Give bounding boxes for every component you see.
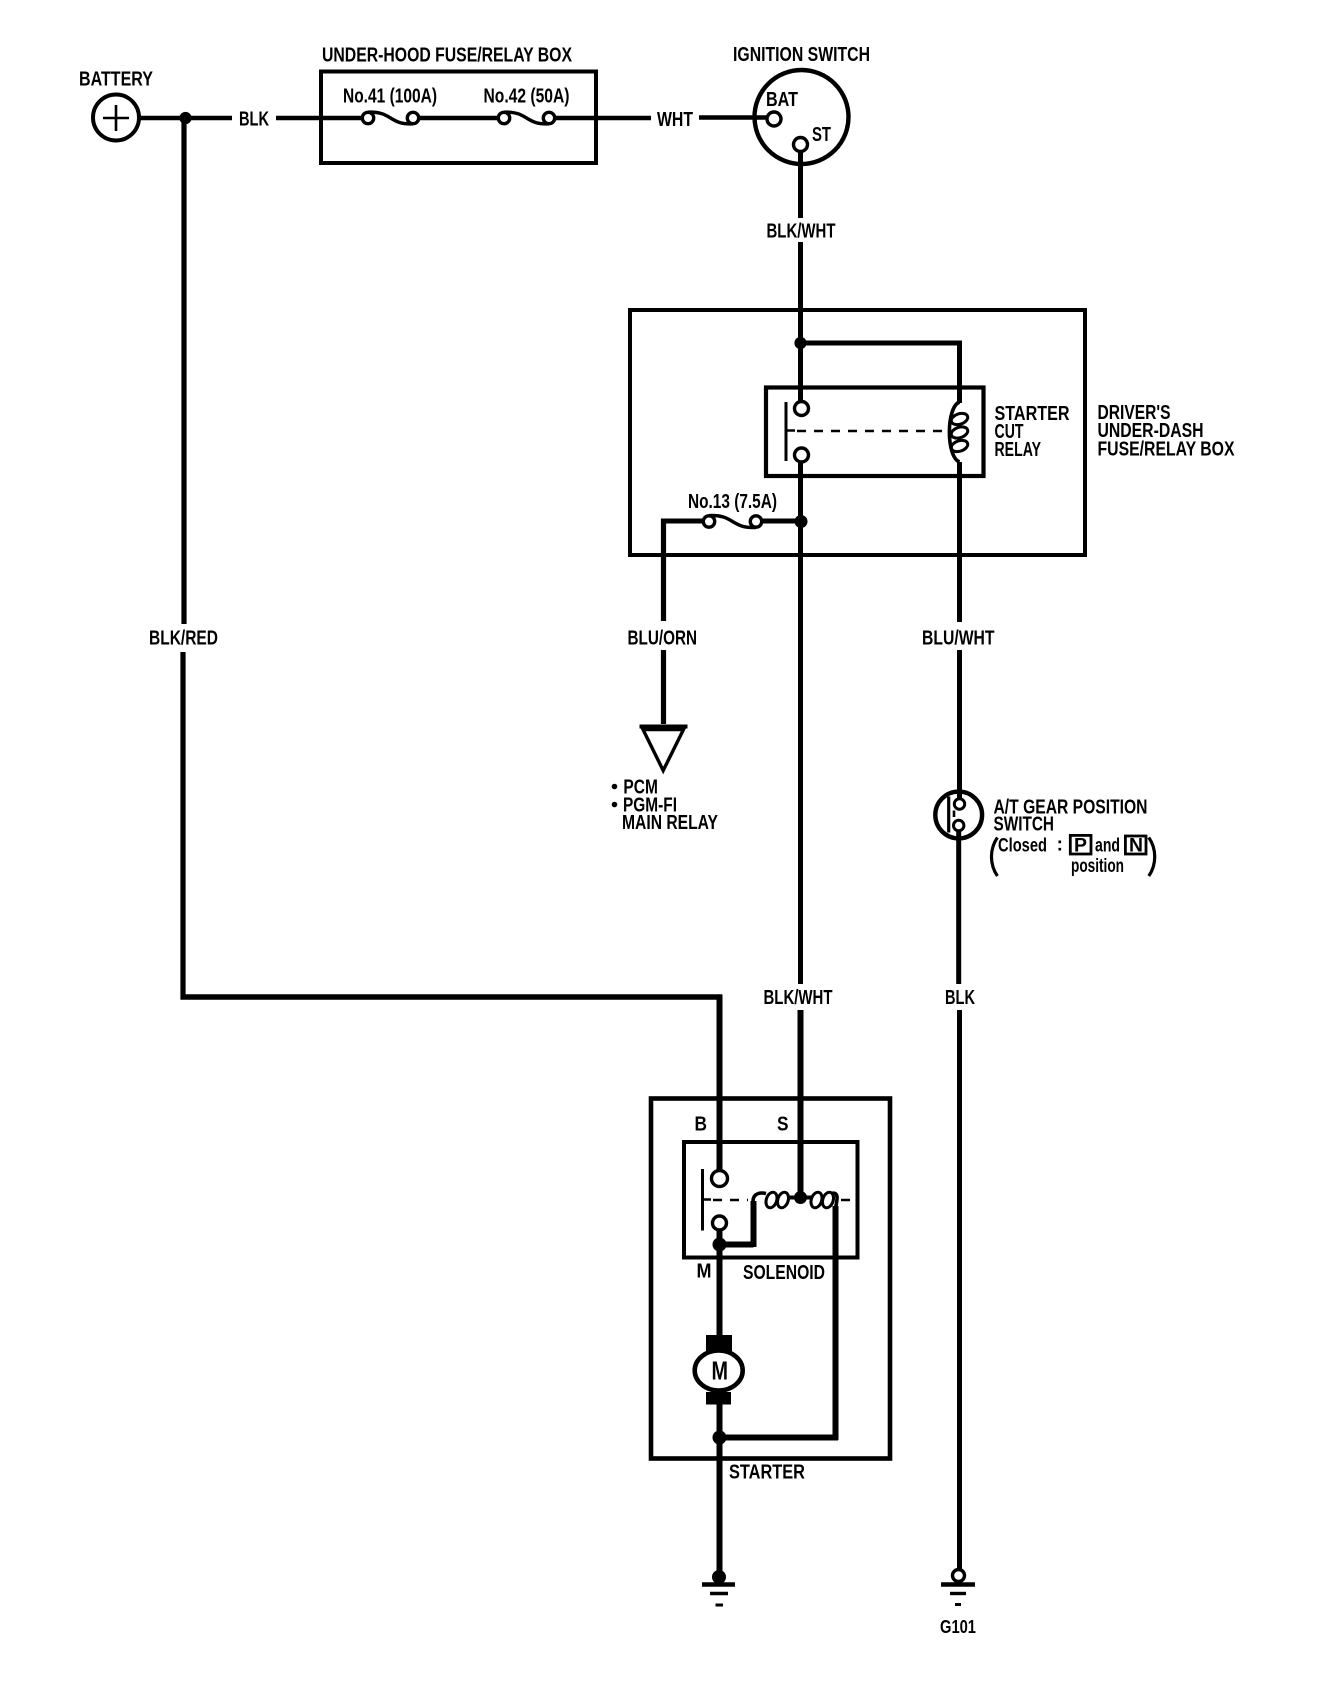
svg-text:IGNITION SWITCH: IGNITION SWITCH bbox=[733, 44, 870, 66]
svg-text:No.41 (100A): No.41 (100A) bbox=[343, 85, 437, 107]
svg-text:M: M bbox=[712, 1356, 729, 1386]
svg-text:S: S bbox=[777, 1114, 789, 1136]
svg-text:SWITCH: SWITCH bbox=[994, 814, 1055, 836]
svg-text:FUSE/RELAY BOX: FUSE/RELAY BOX bbox=[1098, 439, 1236, 461]
svg-text:BATTERY: BATTERY bbox=[79, 69, 154, 91]
svg-text:M: M bbox=[697, 1261, 712, 1283]
svg-text::: : bbox=[1057, 835, 1063, 856]
svg-text:and: and bbox=[1095, 835, 1120, 856]
svg-text:BLK: BLK bbox=[945, 987, 975, 1009]
svg-text:BLK/RED: BLK/RED bbox=[149, 627, 218, 649]
svg-text:BLU/ORN: BLU/ORN bbox=[628, 627, 698, 649]
svg-text:ST: ST bbox=[812, 124, 831, 146]
svg-text:BLK: BLK bbox=[239, 109, 269, 131]
svg-text:G101: G101 bbox=[940, 1617, 976, 1637]
svg-text:RELAY: RELAY bbox=[995, 439, 1042, 461]
svg-text:Closed: Closed bbox=[998, 835, 1047, 856]
svg-text:WHT: WHT bbox=[657, 109, 693, 131]
svg-text:N: N bbox=[1129, 836, 1143, 857]
svg-text:BLU/WHT: BLU/WHT bbox=[922, 627, 995, 649]
svg-text:BLK/WHT: BLK/WHT bbox=[767, 221, 836, 243]
svg-text:SOLENOID: SOLENOID bbox=[743, 1262, 825, 1284]
svg-text:STARTER: STARTER bbox=[729, 1462, 805, 1484]
svg-text:BAT: BAT bbox=[766, 89, 798, 111]
svg-text:B: B bbox=[695, 1114, 708, 1136]
svg-text:UNDER-HOOD FUSE/RELAY BOX: UNDER-HOOD FUSE/RELAY BOX bbox=[322, 45, 573, 67]
svg-text:position: position bbox=[1071, 856, 1124, 877]
svg-text:No.13 (7.5A): No.13 (7.5A) bbox=[688, 491, 777, 513]
svg-text:P: P bbox=[1074, 836, 1087, 857]
svg-text:MAIN RELAY: MAIN RELAY bbox=[622, 812, 719, 834]
svg-text:No.42 (50A): No.42 (50A) bbox=[484, 85, 570, 107]
svg-text:BLK/WHT: BLK/WHT bbox=[764, 987, 833, 1009]
